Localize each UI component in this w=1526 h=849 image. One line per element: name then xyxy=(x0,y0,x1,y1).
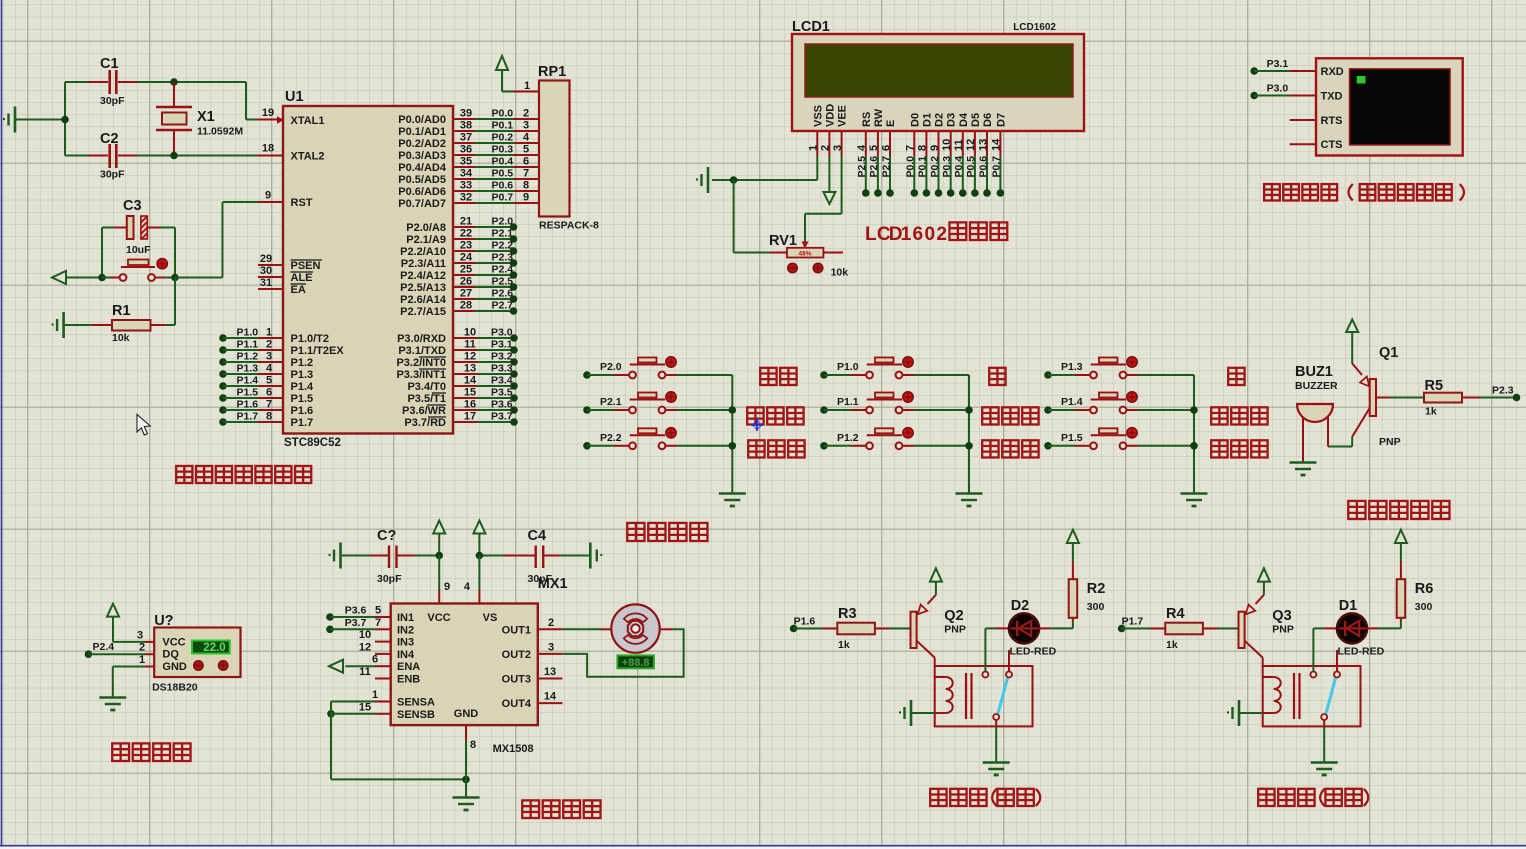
svg-text:13: 13 xyxy=(544,666,556,678)
label relay (heating) xyxy=(930,789,1040,806)
svg-text:P1.5: P1.5 xyxy=(1061,432,1083,444)
svg-text:2: 2 xyxy=(523,108,529,120)
svg-text:C3: C3 xyxy=(123,198,142,214)
svg-text:BUZ1: BUZ1 xyxy=(1295,364,1333,380)
terminal P3.1 to RXD xyxy=(1250,58,1289,75)
svg-text:P0.1: P0.1 xyxy=(492,120,514,132)
svg-text:P1.7: P1.7 xyxy=(237,411,259,423)
power arrow RP1 pin1 xyxy=(496,56,539,92)
terminal P2.6 on LCD RW xyxy=(868,156,882,197)
wire button to R1 xyxy=(174,278,176,326)
svg-text:2: 2 xyxy=(548,617,554,629)
svg-text:6: 6 xyxy=(523,156,529,168)
power arrow Q2 emitter xyxy=(930,568,942,595)
svg-text:15: 15 xyxy=(359,701,371,713)
svg-text:D7: D7 xyxy=(995,113,1007,127)
power cell terminal left of crystal xyxy=(3,107,15,133)
power arrow DS18B20 VCC pin 3 xyxy=(107,604,154,642)
svg-text:14: 14 xyxy=(991,138,1003,151)
wire SENS loop to gnd xyxy=(331,702,470,784)
svg-text:XTAL1: XTAL1 xyxy=(291,115,325,127)
svg-text:1k: 1k xyxy=(1425,406,1437,418)
svg-text:P0.7/AD7: P0.7/AD7 xyxy=(398,198,446,210)
svg-text:D6: D6 xyxy=(982,113,994,127)
svg-text:19: 19 xyxy=(262,107,274,119)
svg-text:RXD: RXD xyxy=(1321,66,1344,78)
label fan stop xyxy=(748,440,804,457)
resistor R5 1k xyxy=(1424,378,1517,418)
mcu U1 STC89C52 xyxy=(283,89,453,449)
svg-text:D5: D5 xyxy=(970,113,982,127)
ALE left arrow terminal xyxy=(52,271,102,284)
svg-text:PNP: PNP xyxy=(944,624,966,636)
svg-text:P1.5: P1.5 xyxy=(237,387,259,399)
svg-text:8: 8 xyxy=(470,739,476,751)
svg-text:P1.4: P1.4 xyxy=(291,381,315,393)
label high heat xyxy=(1211,407,1267,424)
svg-text:14: 14 xyxy=(544,691,557,703)
svg-text:P1.1: P1.1 xyxy=(237,339,259,351)
svg-text:P1.6: P1.6 xyxy=(794,616,816,628)
label motor control xyxy=(522,800,600,818)
svg-text:LCD1: LCD1 xyxy=(792,19,830,35)
pin number 18 xyxy=(262,143,274,155)
label minus xyxy=(1228,368,1244,385)
svg-text:P1.4: P1.4 xyxy=(237,375,259,387)
svg-text:5: 5 xyxy=(523,144,529,156)
svg-text:R3: R3 xyxy=(838,606,857,622)
LED D1 LED-RED xyxy=(1337,598,1385,658)
svg-text:D2: D2 xyxy=(1011,598,1030,614)
svg-text:P2.0: P2.0 xyxy=(600,361,622,373)
svg-text:1k: 1k xyxy=(1166,639,1178,651)
terminal P2.5 pin 26 xyxy=(453,276,517,291)
svg-text:300: 300 xyxy=(1415,601,1433,613)
svg-text:P2.2/A10: P2.2/A10 xyxy=(400,246,446,258)
svg-text:XTAL2: XTAL2 xyxy=(291,151,325,163)
svg-text:5: 5 xyxy=(266,375,272,387)
wire C3 left leg xyxy=(101,228,103,278)
net P0.7 U1 pin 32 to RP1 pin 9 xyxy=(453,192,539,204)
svg-text:6: 6 xyxy=(372,654,378,666)
svg-text:18: 18 xyxy=(262,143,274,155)
svg-text:C?: C? xyxy=(377,528,396,544)
svg-text:2: 2 xyxy=(936,224,947,245)
label mcu minimal system xyxy=(176,466,311,483)
svg-text:P2.4: P2.4 xyxy=(492,264,514,276)
svg-text:1: 1 xyxy=(901,224,912,245)
power arrow relay xyxy=(1395,530,1407,543)
terminal P0.4 on LCD D4 xyxy=(953,156,967,197)
svg-text:13: 13 xyxy=(977,139,989,151)
power cell C4 xyxy=(590,543,602,569)
svg-text:P0.4/AD4: P0.4/AD4 xyxy=(398,162,447,174)
button column rail wire xyxy=(1190,375,1198,493)
svg-text:2: 2 xyxy=(139,642,145,654)
svg-text:+88.8: +88.8 xyxy=(622,657,650,669)
svg-text:OUT1: OUT1 xyxy=(502,624,531,636)
LCD screen xyxy=(805,44,1073,97)
ground buzzer xyxy=(1290,463,1317,476)
capacitor C? 30pF xyxy=(342,528,439,585)
capacitor C2 xyxy=(65,131,137,181)
label serial receive (phone sim) xyxy=(1264,184,1464,200)
U1 right pin names xyxy=(396,114,446,429)
wire collector to relay xyxy=(934,658,936,666)
svg-text:RW: RW xyxy=(873,108,885,127)
svg-text:D0: D0 xyxy=(909,113,921,127)
terminal P1.0 pin 1 xyxy=(219,327,283,342)
wire to RST pin xyxy=(175,202,283,278)
svg-text:13: 13 xyxy=(464,363,476,375)
svg-text:C1: C1 xyxy=(100,56,119,72)
svg-text:D1: D1 xyxy=(921,113,933,127)
svg-text:P3.0: P3.0 xyxy=(1267,83,1289,95)
terminal pin names xyxy=(1290,66,1344,151)
svg-text:P3.1/TXD: P3.1/TXD xyxy=(398,345,446,357)
svg-text:P3.6: P3.6 xyxy=(491,399,513,411)
terminal P2.5 on LCD RS xyxy=(856,156,870,197)
push button P1.2 xyxy=(820,428,969,450)
svg-text:P3.3/INT1: P3.3/INT1 xyxy=(396,369,446,381)
svg-text:5: 5 xyxy=(375,605,381,617)
wire C2 to XTAL2 xyxy=(137,152,283,160)
terminal P0.7 on LCD D7 xyxy=(991,156,1005,197)
svg-text:P1.1: P1.1 xyxy=(837,396,859,408)
terminal P3.3 pin 13 xyxy=(453,363,518,378)
svg-text:2: 2 xyxy=(266,339,272,351)
wire relay common to ground xyxy=(1323,720,1325,762)
terminal P0.5 on LCD D5 xyxy=(965,156,979,197)
svg-text:IN2: IN2 xyxy=(397,624,414,636)
svg-text:VCC: VCC xyxy=(162,636,185,648)
svg-text:P2.6: P2.6 xyxy=(492,288,514,300)
node reset right xyxy=(171,228,179,282)
svg-text:21: 21 xyxy=(460,216,472,228)
svg-text:ALE: ALE xyxy=(291,272,313,284)
terminal P2.6 pin 27 xyxy=(453,288,517,303)
DS18B20 buttons xyxy=(194,661,228,670)
capacitor C3 10uF xyxy=(102,198,175,256)
svg-text:PNP: PNP xyxy=(1272,624,1294,636)
svg-text:R2: R2 xyxy=(1087,581,1106,597)
svg-text:P0.5: P0.5 xyxy=(965,156,977,178)
svg-text:10k: 10k xyxy=(112,332,130,344)
svg-text:11.0592M: 11.0592M xyxy=(197,126,243,138)
wire contact to LED xyxy=(1313,628,1337,671)
svg-text:P0.4: P0.4 xyxy=(953,156,965,178)
GND pin 1 to ground xyxy=(113,654,154,697)
svg-text:P0.6: P0.6 xyxy=(492,180,514,192)
svg-text:SENSB: SENSB xyxy=(397,709,435,721)
svg-text:300: 300 xyxy=(1087,601,1105,613)
svg-text:P3.6: P3.6 xyxy=(345,605,367,617)
svg-text:9: 9 xyxy=(444,581,450,593)
svg-text:P1.3: P1.3 xyxy=(237,363,259,375)
wire to RV1 xyxy=(734,180,787,253)
resistor R6 300 xyxy=(1367,544,1433,629)
wire to VCC pin 9 xyxy=(439,556,450,604)
potentiometer RV1 10k xyxy=(769,233,848,279)
svg-text:RST: RST xyxy=(291,197,313,209)
svg-text:P3.0/RXD: P3.0/RXD xyxy=(397,333,446,345)
U1 PSEN ALE EA pin stubs 29 30 31 xyxy=(258,253,283,289)
svg-text:LCD1602: LCD1602 xyxy=(1013,22,1056,33)
terminal P0.1 on LCD D1 xyxy=(917,156,931,197)
LED D2 LED-RED xyxy=(1009,598,1057,658)
svg-text:26: 26 xyxy=(460,276,472,288)
ground relay xyxy=(983,763,1010,776)
ground xyxy=(719,494,746,507)
svg-text:P1.2: P1.2 xyxy=(837,432,859,444)
wire to ground xyxy=(465,779,467,797)
svg-text:P2.4: P2.4 xyxy=(93,641,115,653)
svg-text:P2.5: P2.5 xyxy=(856,156,868,178)
stub contact B xyxy=(1336,650,1338,672)
svg-text:P3.2/INT0: P3.2/INT0 xyxy=(396,357,446,369)
svg-text:6: 6 xyxy=(913,224,924,245)
svg-text:P2.1: P2.1 xyxy=(492,228,514,240)
net P0.0 U1 pin 39 to RP1 pin 2 xyxy=(453,108,539,120)
terminal P1.2 pin 3 xyxy=(219,351,283,366)
white arrow cursor xyxy=(137,415,150,436)
svg-text:C4: C4 xyxy=(528,528,547,544)
net P0.6 U1 pin 33 to RP1 pin 8 xyxy=(453,180,539,192)
label set xyxy=(760,368,796,385)
svg-text:R5: R5 xyxy=(1425,378,1444,394)
svg-text:PSEN: PSEN xyxy=(291,260,321,272)
svg-text:3: 3 xyxy=(832,145,844,151)
svg-text:28: 28 xyxy=(460,300,472,312)
node reset left xyxy=(98,274,106,282)
svg-text:10: 10 xyxy=(941,139,953,151)
svg-text:1: 1 xyxy=(372,689,378,701)
label heat stop xyxy=(747,407,803,424)
power cell at R1 xyxy=(52,312,64,338)
svg-text:37: 37 xyxy=(460,132,472,144)
motor MX1 xyxy=(611,604,659,652)
terminal P3.6 IN1 xyxy=(326,605,391,621)
svg-text:1k: 1k xyxy=(838,639,850,651)
power cell C? xyxy=(329,543,341,569)
svg-text:7: 7 xyxy=(375,617,381,629)
svg-text:RP1: RP1 xyxy=(538,64,566,80)
svg-text:OUT4: OUT4 xyxy=(502,698,532,710)
svg-text:P3.7: P3.7 xyxy=(491,411,513,423)
svg-text:24: 24 xyxy=(460,252,473,264)
push button P1.4 xyxy=(1044,392,1194,414)
label low heat xyxy=(982,407,1038,424)
svg-text:30: 30 xyxy=(260,265,272,277)
svg-text:30pF: 30pF xyxy=(100,169,125,181)
svg-text:PNP: PNP xyxy=(1379,436,1401,448)
svg-text:P2.0/A8: P2.0/A8 xyxy=(406,222,446,234)
wire collector to relay xyxy=(1262,658,1264,666)
svg-text:5: 5 xyxy=(868,145,880,151)
terminal P0.3 on LCD D3 xyxy=(941,156,955,197)
resistor R2 300 xyxy=(1039,544,1105,629)
svg-text:36: 36 xyxy=(460,144,472,156)
svg-text:P0.7: P0.7 xyxy=(492,192,514,204)
net P0.1 U1 pin 38 to RP1 pin 3 xyxy=(453,120,539,132)
terminal P3.4 pin 14 xyxy=(453,375,518,390)
transistor Q2 PNP xyxy=(911,595,966,658)
svg-text:P3.7/RD: P3.7/RD xyxy=(404,417,446,429)
svg-text:P2.6: P2.6 xyxy=(868,156,880,178)
svg-text:X1: X1 xyxy=(197,109,215,125)
svg-text:4: 4 xyxy=(523,132,530,144)
label independent keys xyxy=(627,523,707,541)
svg-text:10: 10 xyxy=(359,629,371,641)
ENA arrow pin 6 xyxy=(329,654,391,673)
svg-text:P3.4/T0: P3.4/T0 xyxy=(407,381,446,393)
power cell relay coil xyxy=(899,700,935,726)
svg-text:MX1: MX1 xyxy=(538,576,568,592)
svg-text:IN1: IN1 xyxy=(397,612,414,624)
svg-text:P2.2: P2.2 xyxy=(600,432,622,444)
svg-text:TXD: TXD xyxy=(1321,91,1343,103)
node junction C1/C2 xyxy=(61,82,69,156)
svg-text:R6: R6 xyxy=(1415,581,1434,597)
svg-text:1: 1 xyxy=(266,327,272,339)
terminal P3.1 pin 11 xyxy=(453,339,518,354)
svg-text:48%: 48% xyxy=(798,251,811,258)
svg-text:3: 3 xyxy=(137,629,143,641)
svg-text:14: 14 xyxy=(464,375,477,387)
wire xyxy=(15,119,65,121)
svg-text:10: 10 xyxy=(464,327,476,339)
svg-text:P1.6: P1.6 xyxy=(291,405,314,417)
svg-text:8: 8 xyxy=(266,411,272,423)
svg-text:3: 3 xyxy=(266,351,272,363)
svg-text:P1.2: P1.2 xyxy=(291,357,314,369)
terminal P1.6 xyxy=(790,616,816,633)
svg-text:VEE: VEE xyxy=(837,105,849,127)
power arrow Q3 emitter xyxy=(1258,568,1270,595)
svg-text:C2: C2 xyxy=(100,131,119,147)
push button P1.0 xyxy=(820,357,969,379)
terminal P2.0 pin 21 xyxy=(453,216,517,231)
svg-text:P2.7: P2.7 xyxy=(492,300,514,312)
terminal P2.3 xyxy=(1492,385,1520,402)
SENSA pin 1 xyxy=(331,689,391,702)
svg-text:3: 3 xyxy=(548,641,554,653)
svg-text:E: E xyxy=(885,120,897,127)
svg-text:P2.5: P2.5 xyxy=(492,276,514,288)
svg-text:ENB: ENB xyxy=(397,674,420,686)
svg-text:4: 4 xyxy=(464,581,471,593)
svg-text:P2.1: P2.1 xyxy=(600,396,622,408)
push button P2.0 xyxy=(583,357,732,379)
svg-text:9: 9 xyxy=(265,190,271,202)
terminal P0.2 on LCD D2 xyxy=(929,156,943,197)
terminal P3.0 to TXD xyxy=(1250,83,1289,100)
label buzzer alarm xyxy=(1348,501,1449,519)
buzzer BUZ1 xyxy=(1295,364,1338,462)
svg-text:P2.4/A12: P2.4/A12 xyxy=(400,270,446,282)
blue crosshair cursor xyxy=(751,419,763,431)
svg-text:DS18B20: DS18B20 xyxy=(152,682,198,694)
svg-text:10k: 10k xyxy=(831,267,849,279)
terminal P3.6 pin 16 xyxy=(453,399,518,414)
terminal P1.7 pin 8 xyxy=(219,411,283,426)
button column rail wire xyxy=(965,375,973,493)
svg-text:1: 1 xyxy=(139,654,145,666)
svg-text:P1.3: P1.3 xyxy=(1061,361,1083,373)
svg-text:P2.3: P2.3 xyxy=(492,252,514,264)
svg-text:P0.5/AD5: P0.5/AD5 xyxy=(398,174,446,186)
svg-text:P0.2/AD2: P0.2/AD2 xyxy=(398,138,446,150)
svg-text:P0.2: P0.2 xyxy=(492,132,514,144)
svg-text:P3.6/WR: P3.6/WR xyxy=(402,405,446,417)
svg-text:P1.7: P1.7 xyxy=(291,417,314,429)
svg-text:P3.7: P3.7 xyxy=(345,617,367,629)
transistor Q1 PNP xyxy=(1352,345,1400,448)
svg-text:VS: VS xyxy=(483,612,498,624)
svg-text:15: 15 xyxy=(464,387,476,399)
svg-text:34: 34 xyxy=(460,168,473,180)
svg-text:VSS: VSS xyxy=(812,105,824,127)
terminal P2.3 pin 24 xyxy=(453,252,517,267)
motor driver MX1508 xyxy=(391,576,568,755)
terminal P1.4 pin 5 xyxy=(219,375,283,390)
svg-text:P1.0: P1.0 xyxy=(237,327,259,339)
svg-text:P1.6: P1.6 xyxy=(237,399,259,411)
svg-text:4: 4 xyxy=(266,363,273,375)
LCD pin names and stubs xyxy=(808,104,1008,156)
capacitor C1 xyxy=(65,56,137,107)
svg-text:P1.2: P1.2 xyxy=(237,351,259,363)
svg-text:D1: D1 xyxy=(1339,598,1358,614)
svg-text:P2.7: P2.7 xyxy=(880,156,892,178)
svg-text:P0.0/AD0: P0.0/AD0 xyxy=(398,114,446,126)
power arrow Q1 emitter xyxy=(1346,319,1358,363)
svg-text:ENA: ENA xyxy=(397,661,420,673)
svg-text:35: 35 xyxy=(460,156,472,168)
svg-text:6: 6 xyxy=(266,387,272,399)
terminal P2.7 on LCD E xyxy=(880,156,894,197)
svg-text:P2.0: P2.0 xyxy=(492,216,514,228)
terminal P1.3 pin 4 xyxy=(219,363,283,378)
svg-text:P1.4: P1.4 xyxy=(1061,396,1083,408)
push button P1.3 xyxy=(1044,357,1194,379)
pin number 19 xyxy=(262,107,274,119)
power down arrow VDD xyxy=(823,156,835,204)
svg-text:STC89C52: STC89C52 xyxy=(284,437,341,449)
svg-text:RTS: RTS xyxy=(1321,115,1343,127)
svg-text:25: 25 xyxy=(460,264,472,276)
svg-text:P1.5: P1.5 xyxy=(291,393,314,405)
svg-text:9: 9 xyxy=(929,145,941,151)
SENSB pin 15 xyxy=(327,701,391,717)
svg-text:RV1: RV1 xyxy=(769,233,797,249)
svg-text:L: L xyxy=(865,224,877,245)
svg-text:P3.1: P3.1 xyxy=(491,339,513,351)
svg-text:30pF: 30pF xyxy=(100,95,125,107)
resistor R4 1k xyxy=(1122,606,1239,651)
relay coil+switch xyxy=(1263,666,1361,726)
svg-text:P0.5: P0.5 xyxy=(492,168,514,180)
svg-text:IN3: IN3 xyxy=(397,637,414,649)
ground xyxy=(1181,494,1208,507)
push button P2.1 xyxy=(583,392,732,414)
terminal P2.1 pin 22 xyxy=(453,228,517,243)
svg-text:39: 39 xyxy=(460,108,472,120)
svg-text:P0.7: P0.7 xyxy=(991,156,1003,178)
svg-text:7: 7 xyxy=(905,145,917,151)
svg-text:P2.7/A15: P2.7/A15 xyxy=(400,306,446,318)
svg-text:38: 38 xyxy=(460,120,472,132)
